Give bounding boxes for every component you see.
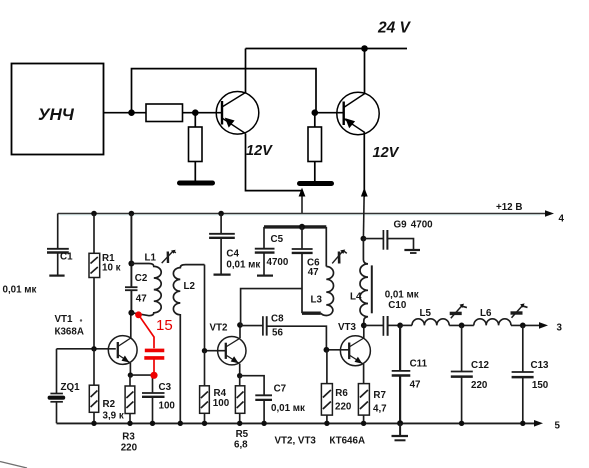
wire VT1 base left (57, 348, 116, 350)
capacitor C12 (461, 325, 463, 371)
VT2 emitter node (239, 364, 241, 376)
node C junction (312, 109, 319, 116)
capacitor G9 (C9) (363, 238, 383, 240)
VT1 collector wire up (130, 313, 132, 338)
output line node at C11 (397, 323, 403, 329)
svg-text:L5: L5 (420, 308, 432, 319)
wire VT2 base from L2 column (205, 350, 226, 352)
svg-text:С4: С4 (226, 249, 239, 260)
T1 collector wire to 24V rail (245, 49, 247, 93)
resistor R2 (93, 349, 95, 385)
arrowhead of +12V rail, pin 4 (545, 210, 554, 217)
variable arrow of L6 (512, 305, 523, 318)
resistor R1 (93, 214, 95, 254)
inductor L1 (131, 263, 149, 265)
svg-text:4700: 4700 (411, 220, 433, 231)
node B junction (192, 109, 199, 116)
wire VT3 base (326, 349, 349, 351)
svg-text:С3: С3 (159, 382, 172, 393)
svg-text:L1: L1 (145, 253, 157, 264)
arrowhead of bottom rail, pin 5 (534, 420, 543, 427)
svg-text:С5: С5 (271, 234, 284, 245)
VT1 emitter node (128, 372, 133, 377)
svg-text:VT1: VT1 (55, 314, 74, 325)
VT3 emitter to R7 (363, 364, 365, 384)
svg-text:12V: 12V (246, 143, 273, 159)
svg-text:4: 4 (559, 214, 565, 225)
svg-text:47: 47 (308, 267, 319, 278)
capacitor C1 (57, 214, 59, 249)
wire L5 to node C12 (449, 324, 474, 326)
svg-text:3,9 к: 3,9 к (103, 411, 124, 422)
svg-text:L3: L3 (311, 295, 323, 306)
svg-text:4,7: 4,7 (373, 404, 387, 415)
inductor L6 (474, 319, 511, 326)
svg-text:G9: G9 (394, 220, 408, 231)
+12V top rail (58, 213, 548, 215)
resistor R5 (239, 376, 241, 386)
wire node A up and over to node C (132, 69, 317, 113)
svg-text:С12: С12 (471, 360, 490, 371)
svg-text:47: 47 (410, 380, 421, 391)
ground under node B resistor (180, 181, 213, 186)
capacitor C10 (364, 324, 383, 326)
red node dot on emitter wire (150, 372, 157, 379)
svg-text:+12 В: +12 В (496, 202, 522, 213)
resistor vertical at node C (314, 113, 316, 127)
svg-text:3: 3 (557, 323, 563, 334)
column C2 from rail (130, 214, 132, 288)
svg-text:150: 150 (532, 380, 549, 391)
svg-text:12V: 12V (373, 145, 400, 161)
svg-text:К368А: К368А (55, 327, 84, 338)
VT2 collector node and wire to tank (239, 325, 241, 338)
svg-text:0,01 мк: 0,01 мк (271, 403, 305, 414)
svg-text:VT2, VT3: VT2, VT3 (275, 436, 317, 447)
variable arrow of L5 (451, 305, 462, 318)
svg-text:R7: R7 (373, 390, 386, 401)
red wire to added capacitor (140, 316, 155, 348)
inductor L2 (173, 265, 204, 424)
capacitor C2 (125, 286, 138, 288)
svg-text:6,8: 6,8 (234, 440, 248, 451)
svg-text:С7: С7 (274, 384, 287, 395)
svg-text:R2: R2 (103, 399, 116, 410)
svg-text:С13: С13 (531, 360, 550, 371)
capacitor C11 (399, 325, 401, 370)
svg-text:10 к: 10 к (102, 263, 121, 274)
transistor VT1 (108, 336, 137, 365)
added capacitor (red) (145, 349, 165, 353)
svg-text:R5: R5 (236, 429, 249, 440)
wire resistor to T1 base (183, 112, 223, 114)
variable arrow of L1 (162, 251, 174, 264)
T2 emitter wire down into scan (363, 133, 365, 198)
junction on 24V rail (361, 45, 368, 52)
svg-text:VT2: VT2 (210, 323, 229, 334)
svg-text:С11: С11 (410, 359, 428, 370)
capacitor C7 (240, 376, 264, 395)
svg-text:220: 220 (335, 402, 352, 413)
resistor R7 (358, 384, 369, 416)
svg-text:0,01 мк: 0,01 мк (226, 260, 260, 271)
svg-text:56: 56 (272, 328, 283, 339)
transistor VT2 (218, 337, 246, 365)
svg-text:220: 220 (471, 380, 488, 391)
svg-text:100: 100 (159, 401, 176, 412)
svg-text:L4: L4 (350, 292, 362, 303)
thick top bar of tank (264, 225, 326, 228)
svg-text:24 V: 24 V (377, 20, 412, 37)
red node dot on L1/C2 junction (135, 311, 142, 318)
svg-text:5: 5 (555, 421, 561, 432)
svg-text:0,01 мк: 0,01 мк (3, 285, 37, 296)
capacitor C5 (263, 227, 265, 248)
rail junction dots (91, 211, 97, 217)
svg-text:КТ646А: КТ646А (329, 436, 365, 447)
transistor T1 (PNP pass 12V) (216, 92, 259, 135)
svg-text:4700: 4700 (267, 257, 289, 268)
resistor R6 (326, 350, 328, 384)
svg-text:15: 15 (156, 317, 173, 334)
transistor T2 (PNP pass 12V) (337, 92, 379, 134)
crystal ZQ1 (56, 349, 58, 394)
wire УНЧ output to node A (104, 112, 147, 114)
svg-text:ZQ1: ZQ1 (61, 382, 81, 393)
bottom ground rail (57, 422, 537, 424)
capacitor C8 (240, 325, 263, 327)
svg-text:R6: R6 (335, 388, 348, 399)
svg-text:0,01 мк: 0,01 мк (385, 290, 419, 301)
VT3 collector node (363, 325, 365, 338)
arrow up on T2 feed wire (361, 188, 368, 197)
svg-text:С10: С10 (388, 300, 407, 311)
variable arrow of L3/L4 (332, 250, 343, 263)
ground symbol below rail (399, 423, 401, 435)
resistor vertical at node B (194, 113, 196, 127)
svg-text:L2: L2 (184, 281, 196, 292)
block УНЧ (audio amp) (12, 64, 104, 155)
svg-text:УНЧ: УНЧ (38, 105, 75, 124)
resistor R4 (204, 351, 206, 386)
rail junction dots bottom (91, 421, 96, 426)
node A junction (128, 109, 135, 116)
junction of 12V feed at G9 (362, 197, 365, 239)
capacitor C4 (220, 214, 222, 234)
svg-text:47: 47 (136, 294, 147, 305)
svg-text:С2: С2 (135, 273, 148, 284)
scan artifact bottom-left (0, 462, 27, 468)
resistor R3 (129, 375, 131, 386)
svg-text:220: 220 (121, 443, 138, 454)
T1 emitter wire down and right (246, 134, 303, 191)
capacitor C3 (152, 375, 154, 393)
VT1 emitter wire down (129, 363, 131, 375)
svg-text:VT3: VT3 (338, 322, 357, 333)
wire to output arrow, pin 3 (511, 324, 542, 326)
inductor L4 (360, 239, 368, 326)
ground under node C resistor (300, 181, 332, 186)
svg-text:С8: С8 (271, 314, 284, 325)
capacitor C6 (301, 227, 303, 249)
capacitor C13 (522, 325, 524, 371)
svg-text:С1: С1 (60, 252, 73, 263)
wire L2 top to VT2 base column (204, 265, 206, 351)
T2 collector wire to 24V rail (364, 49, 366, 94)
arrow up on T1 feed wire (299, 188, 306, 197)
svg-text:L6: L6 (480, 308, 492, 319)
svg-text:100: 100 (213, 398, 230, 409)
svg-text:R3: R3 (122, 432, 135, 443)
24V rail (246, 48, 408, 50)
transistor VT3 (340, 336, 370, 366)
inductor L3 (325, 227, 327, 267)
inductor L5 (400, 324, 412, 326)
wire node C to T2 base (315, 112, 344, 114)
resistor R(base T1) horizontal (146, 104, 183, 122)
